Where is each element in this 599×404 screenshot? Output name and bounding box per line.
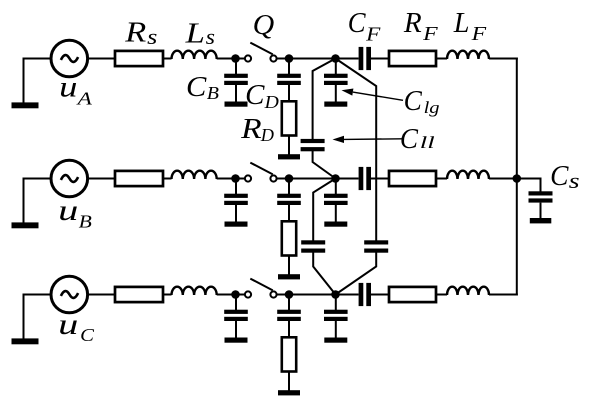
- label RD: [240, 114, 274, 145]
- svg-text:D: D: [264, 92, 279, 112]
- svg-text:A: A: [76, 89, 93, 109]
- capacitor Cll (A-C): [364, 240, 388, 252]
- node bus (phase B junction): [513, 174, 522, 183]
- node A3 (filter input): [331, 54, 340, 63]
- wire Cll A-C to C3: [336, 252, 377, 294]
- svg-text:C: C: [245, 80, 265, 111]
- wire: [88, 294, 115, 296]
- wire: [217, 58, 236, 60]
- wire: [23, 178, 52, 180]
- inductor Ls (phase C): [172, 287, 217, 295]
- svg-text:C: C: [400, 124, 418, 155]
- svg-text:C: C: [186, 72, 207, 103]
- wire: [436, 294, 447, 296]
- capacitor Clg (phase B): [324, 179, 348, 227]
- label CF (label): [348, 8, 382, 46]
- wire: [88, 178, 115, 180]
- AC source uC: [51, 276, 88, 313]
- node A2 (after switch): [285, 54, 294, 63]
- switch Q (phase C): [245, 279, 277, 298]
- label uC: [58, 308, 95, 345]
- wire: [217, 178, 236, 180]
- wire B3 to Cll B-C: [313, 179, 335, 241]
- arrow to Clg: [342, 89, 404, 101]
- capacitor Cs: [529, 191, 553, 223]
- resistor Rs (phase C): [115, 287, 163, 302]
- wire: [336, 294, 359, 296]
- capacitor Cll (A-B): [301, 139, 325, 151]
- capacitor CB (phase B): [224, 179, 248, 227]
- wire: [436, 178, 447, 180]
- svg-text:u: u: [58, 308, 78, 341]
- wire bus to Cs: [517, 179, 541, 192]
- label CD: [245, 80, 279, 112]
- wire: [489, 58, 518, 60]
- wire: [371, 178, 389, 180]
- ground (source uA): [12, 59, 39, 109]
- wire: [88, 58, 115, 60]
- wire: [217, 294, 236, 296]
- capacitor CF (phase B): [359, 167, 371, 190]
- resistor Rs (phase A): [115, 51, 163, 66]
- node C1 (after Ls): [231, 290, 240, 299]
- label Clg (label): [404, 86, 440, 117]
- label uA: [59, 71, 93, 109]
- inductor LF (phase C): [447, 287, 489, 295]
- capacitor Clg (phase C): [324, 295, 348, 343]
- svg-text:u: u: [58, 194, 78, 227]
- svg-text:F: F: [365, 24, 381, 46]
- label uB: [58, 194, 92, 231]
- wire: [489, 178, 518, 180]
- svg-text:R: R: [240, 114, 262, 145]
- resistor RD (phase B): [278, 221, 300, 279]
- resistor Rs (phase B): [115, 171, 163, 186]
- capacitor Cll (B-C): [301, 240, 325, 252]
- capacitor Clg (phase A): [324, 59, 348, 107]
- svg-text:ll: ll: [420, 133, 436, 152]
- capacitor CF (phase A): [359, 47, 371, 70]
- node A1 (after Ls): [231, 54, 240, 63]
- inductor Ls (phase B): [172, 171, 217, 179]
- wire: [23, 294, 52, 296]
- node B2 (after switch): [285, 174, 294, 183]
- svg-text:R: R: [124, 17, 146, 48]
- svg-text:C: C: [80, 325, 95, 345]
- label Cs (label): [550, 161, 580, 193]
- wire: [371, 294, 389, 296]
- node B3 (filter input): [331, 174, 340, 183]
- wire Cll B-C to C3: [313, 252, 335, 294]
- wire: [163, 294, 172, 296]
- svg-text:C: C: [550, 161, 569, 192]
- label CB: [186, 72, 219, 103]
- ground (source uC): [12, 295, 39, 345]
- wire Cll A-B to B3: [313, 151, 336, 179]
- node B1 (after Ls): [231, 174, 240, 183]
- arrow to Cll: [333, 136, 403, 143]
- capacitor CD (phase B): [277, 179, 301, 222]
- wire: [163, 178, 172, 180]
- capacitor CD (phase A): [277, 59, 301, 102]
- svg-text:C: C: [404, 86, 423, 117]
- AC source uB: [51, 160, 88, 197]
- wire: [289, 294, 336, 296]
- capacitor CD (phase C): [277, 295, 301, 338]
- capacitor CB (phase A): [224, 59, 248, 107]
- svg-text:D: D: [260, 125, 274, 145]
- svg-text:B: B: [207, 83, 219, 103]
- resistor RF (phase A): [389, 51, 436, 66]
- wire A3 to Cll A-C: [336, 59, 377, 241]
- svg-text:C: C: [348, 8, 366, 39]
- label Rs: [124, 17, 157, 49]
- svg-text:Q: Q: [253, 10, 275, 41]
- resistor RD (phase A): [278, 101, 300, 159]
- wire: [277, 178, 290, 180]
- wire: [236, 294, 246, 296]
- svg-text:s: s: [206, 24, 215, 49]
- svg-text:lg: lg: [424, 98, 440, 117]
- wire: [436, 58, 447, 60]
- wire: [336, 58, 359, 60]
- capacitor CB (phase C): [224, 295, 248, 343]
- switch Q (phase B): [245, 163, 277, 182]
- wire: [277, 294, 290, 296]
- label LF (label): [453, 8, 487, 45]
- resistor RF (phase C): [389, 287, 436, 302]
- capacitor CF (phase C): [359, 283, 371, 306]
- wire: [23, 58, 52, 60]
- switch Q (phase A): [245, 43, 277, 62]
- wire: [489, 294, 518, 296]
- svg-text:s: s: [569, 168, 580, 193]
- inductor LF (phase A): [447, 51, 489, 59]
- wire: [336, 178, 359, 180]
- node C3 (filter input): [331, 290, 340, 299]
- wire output bus: [516, 58, 518, 296]
- svg-text:F: F: [470, 23, 487, 45]
- svg-text:F: F: [422, 23, 439, 45]
- svg-text:L: L: [184, 18, 205, 49]
- resistor RD (phase C): [278, 337, 300, 395]
- wire A3 to Cll A-B: [313, 59, 336, 140]
- inductor Ls (phase A): [172, 51, 217, 59]
- inductor LF (phase B): [447, 171, 489, 179]
- AC source uA: [51, 40, 88, 77]
- label Q: [253, 10, 275, 41]
- wire: [163, 58, 172, 60]
- resistor RF (phase B): [389, 171, 436, 186]
- svg-text:L: L: [453, 8, 470, 39]
- wire: [289, 58, 336, 60]
- svg-text:u: u: [59, 71, 77, 104]
- wire: [277, 58, 290, 60]
- svg-text:R: R: [403, 8, 422, 39]
- label Ls: [184, 18, 215, 49]
- wire: [371, 58, 389, 60]
- svg-text:s: s: [147, 24, 157, 49]
- node C2 (after switch): [285, 290, 294, 299]
- wire: [236, 58, 246, 60]
- label RF (label): [403, 8, 439, 45]
- svg-text:B: B: [79, 212, 92, 232]
- label Cll (label): [400, 124, 436, 155]
- ground (source uB): [12, 179, 39, 229]
- wire: [289, 178, 336, 180]
- wire: [236, 178, 246, 180]
